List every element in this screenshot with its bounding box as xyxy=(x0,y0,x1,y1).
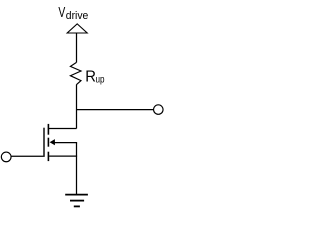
wire: supply to resistor xyxy=(76,33,78,62)
svg-text:drive: drive xyxy=(66,10,89,22)
transistor Q1 (NMOS) drain channel bar xyxy=(47,124,49,135)
power supply symbol Vdrive (open triangle) xyxy=(67,24,87,33)
resistor Rup xyxy=(70,62,81,84)
transistor Q1 gate plate xyxy=(43,128,45,157)
wire: drain lead xyxy=(48,128,76,130)
wire: bulk lead xyxy=(54,142,77,144)
label Rup xyxy=(85,69,104,86)
svg-text:V: V xyxy=(58,5,65,21)
wire: gate lead xyxy=(11,155,43,157)
ground xyxy=(65,195,88,207)
wire: source lead xyxy=(49,155,77,157)
terminal: input pin (open circle) xyxy=(1,152,11,162)
wire: output lead xyxy=(77,109,154,111)
terminal: output pin (open circle) xyxy=(154,105,164,115)
wire: resistor to drain node xyxy=(76,85,78,129)
wire: source to ground xyxy=(76,143,78,195)
svg-text:R: R xyxy=(85,69,96,86)
transistor Q1 source channel bar xyxy=(47,152,49,161)
svg-text:up: up xyxy=(96,74,105,85)
transistor Q1 body channel bar xyxy=(47,138,49,147)
label Vdrive xyxy=(58,5,88,22)
transistor Q1 bulk arrow xyxy=(50,139,55,145)
